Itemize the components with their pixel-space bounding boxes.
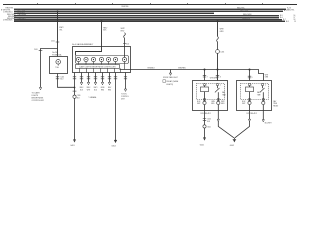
svg-text:TIME: TIME: [257, 95, 261, 97]
svg-text:FUSE 7.5A: FUSE 7.5A: [52, 53, 62, 56]
relay K1 outer box: [193, 81, 228, 111]
svg-text:LIGHTS): LIGHTS): [166, 84, 173, 86]
svg-text:BLK: BLK: [207, 121, 210, 123]
node junction relay bus: [217, 69, 219, 71]
connector circle pin4: [217, 101, 220, 104]
relay K1 switch: [217, 86, 219, 89]
svg-text:G402: G402: [230, 145, 234, 147]
svg-text:C560: C560: [207, 119, 211, 121]
svg-text:B-8: B-8: [286, 21, 289, 23]
svg-text:UNIT: UNIT: [121, 99, 125, 101]
svg-text:CONTROLLER: CONTROLLER: [32, 100, 45, 102]
svg-text:BLK: BLK: [77, 97, 80, 99]
wire bar to box bottom pins: [80, 68, 121, 72]
grid ticks: [38, 3, 263, 4]
wire fuse output: [58, 74, 75, 88]
wire bus L5: [14, 17, 279, 19]
svg-text:GRN: GRN: [211, 101, 214, 103]
svg-text:C416: C416: [60, 76, 64, 78]
svg-text:RED/WHT: RED/WHT: [242, 18, 251, 20]
wire bus L1: [14, 8, 286, 10]
inline connector ticks: [56, 77, 59, 79]
wire gauge to relays: [120, 70, 264, 81]
pin squares top: [249, 84, 251, 86]
svg-text:WHT: WHT: [197, 103, 200, 105]
svg-text:A-17: A-17: [284, 9, 288, 12]
bulb rail rounded box: [76, 56, 129, 64]
bulb B5: [106, 57, 110, 64]
wire bulb stub 4: [102, 73, 104, 83]
relay K2 coil: [246, 87, 254, 92]
svg-text:GRN/RED: GRN/RED: [178, 67, 187, 69]
svg-text:No.4 GAUGE ASSEMBLY: No.4 GAUGE ASSEMBLY: [72, 43, 94, 46]
svg-text:18: 18: [294, 19, 296, 21]
fuse box No.26: [50, 57, 68, 74]
svg-text:RED/: RED/: [80, 87, 84, 89]
svg-text:1: 1: [206, 84, 207, 86]
wire relay2 pin1 drop: [249, 70, 251, 81]
svg-text:G404: G404: [111, 145, 115, 147]
pin squares top: [204, 84, 206, 86]
svg-text:FROM TAILLIGHT: FROM TAILLIGHT: [163, 76, 179, 79]
bulb B6: [113, 57, 117, 64]
svg-text:RED/: RED/: [87, 87, 91, 89]
connector tick: [123, 42, 126, 44]
connector tick C501: [56, 41, 60, 43]
top border frame line: [3, 4, 297, 6]
pin squares bottom: [249, 99, 251, 101]
svg-text:BLU/WHT: BLU/WHT: [265, 122, 272, 124]
svg-text:WHT: WHT: [87, 90, 90, 92]
bulb B7: [122, 57, 126, 69]
node junction L2 fuse drop: [57, 10, 59, 12]
ground G401 left: [73, 139, 76, 141]
relay K1 dashed body: [197, 84, 225, 100]
svg-text:WHT/: WHT/: [221, 101, 225, 103]
ground G404: [114, 139, 117, 141]
svg-text:DRL RELAY 1: DRL RELAY 1: [201, 112, 212, 115]
gauge assembly box U1: [73, 47, 131, 73]
svg-text:TIME: TIME: [222, 95, 226, 97]
wire bus L3: [14, 12, 214, 14]
svg-text:BLU: BLU: [60, 79, 63, 81]
svg-text:C453: C453: [220, 51, 224, 53]
svg-text:GRN/: GRN/: [101, 87, 105, 89]
wire dimming to ground: [115, 73, 117, 141]
fuse F1 symbol: [56, 60, 61, 65]
svg-text:TO DRL: TO DRL: [121, 94, 127, 96]
wire relay 1 feed: [217, 21, 219, 36]
connector circle pin3: [203, 101, 206, 104]
svg-text:RED/WHT: RED/WHT: [18, 18, 27, 20]
relay K1 coil: [201, 87, 209, 92]
svg-text:G401: G401: [200, 145, 204, 147]
svg-text:DASH LIGHTS BRIGHTNESS CONTROL: DASH LIGHTS BRIGHTNESS CONTROLLER: [80, 65, 117, 68]
inline connector ticks: [216, 75, 219, 77]
connector circle pin4: [262, 101, 265, 104]
wire branch to dimmer: [41, 49, 58, 88]
relay K2 outer box: [237, 81, 272, 111]
svg-text:BLU/: BLU/: [108, 87, 112, 89]
wire gauge feed: [76, 21, 102, 55]
wire bulb 7 feed: [124, 38, 126, 57]
arrow TO lighting: [169, 73, 171, 75]
svg-text:DRL RELAY 2: DRL RELAY 2: [247, 112, 258, 115]
svg-text:D RED/BLK: D RED/BLK: [3, 20, 13, 22]
bulb B3: [91, 57, 95, 64]
svg-text:C416: C416: [34, 49, 38, 51]
wire bus L4: [14, 15, 279, 17]
svg-text:RED/GRN: RED/GRN: [18, 14, 27, 16]
wire relay1 pin1 drop: [204, 70, 206, 81]
svg-text:19: 19: [294, 21, 296, 23]
bulb B2: [84, 57, 88, 64]
svg-text:RED/YEL: RED/YEL: [122, 6, 129, 8]
bulb B1: [76, 57, 80, 64]
svg-text:TIME: TIME: [273, 103, 277, 105]
svg-text:RED/GRN: RED/GRN: [243, 14, 252, 16]
svg-text:G551: G551: [207, 126, 211, 128]
node junction L7 feed: [101, 20, 103, 22]
wire K2 pin3 V arm: [235, 111, 250, 138]
connector circle: [73, 95, 76, 98]
svg-text:16: 16: [294, 15, 296, 17]
svg-text:CONTROL: CONTROL: [121, 96, 129, 98]
wire K1 pin3 to ground: [204, 111, 206, 138]
ground G401 right: [203, 137, 206, 139]
svg-text:BLU: BLU: [94, 90, 97, 92]
svg-text:BLK: BLK: [80, 90, 83, 92]
svg-text:GRN: GRN: [265, 77, 268, 79]
arrow to dash lights controller: [39, 87, 41, 89]
svg-text:G401: G401: [70, 145, 74, 147]
node junction L7 relay feed: [217, 20, 219, 22]
connector tick C416: [39, 50, 43, 52]
svg-text:GRN: GRN: [221, 103, 224, 105]
wire bulb stub 3: [95, 73, 97, 83]
bulb B4: [99, 57, 103, 64]
connector squiggle bulb7: [124, 33, 126, 38]
svg-text:C501: C501: [51, 41, 55, 43]
arrow connector: [262, 120, 264, 122]
svg-text:RED/BLK: RED/BLK: [148, 68, 156, 70]
connector circle G551: [203, 125, 206, 128]
svg-text:BLU/: BLU/: [197, 101, 201, 103]
svg-text:YEL: YEL: [59, 30, 62, 32]
wire bulb stub 2: [88, 73, 90, 83]
svg-text:WHT/: WHT/: [94, 87, 98, 89]
wire bulb stub 5: [109, 73, 111, 83]
ground G402: [233, 138, 235, 140]
wire bus L2: [14, 10, 283, 12]
pin squares bottom: [204, 99, 206, 101]
svg-text:C580: C580: [77, 95, 81, 97]
wire K2 pin4 stub: [262, 111, 264, 120]
wire to DRL relay branch: [125, 73, 127, 90]
svg-text:WHT: WHT: [242, 103, 245, 105]
svg-text:WHT/GRN: WHT/GRN: [210, 77, 217, 79]
svg-text:17: 17: [294, 17, 296, 19]
arrow connector: [248, 119, 250, 121]
connector circle pin3: [248, 101, 251, 104]
svg-text:WHT/YEL: WHT/YEL: [240, 10, 248, 12]
wire drop TO lighting: [170, 70, 172, 74]
wire bus L7: [14, 20, 285, 22]
wire K1 pin4 V arm: [218, 111, 234, 138]
wire fuse drop: [57, 11, 59, 56]
wire bulb stub 1: [81, 73, 83, 83]
icon square TO mid: [163, 80, 166, 83]
brightness controller bar: [76, 65, 120, 69]
relay K2 dashed body: [241, 84, 269, 100]
svg-text:1: 1: [251, 84, 252, 86]
svg-text:RED/YEL: RED/YEL: [287, 10, 294, 12]
relay K2 switch: [262, 86, 264, 89]
connector circle C453: [216, 50, 220, 54]
svg-text:WHT: WHT: [265, 74, 268, 76]
svg-text:BLU: BLU: [126, 43, 129, 45]
arrow connector: [217, 119, 219, 121]
svg-text:RELAY (DASH: RELAY (DASH: [166, 80, 179, 83]
connector squiggle: [217, 36, 219, 41]
wire gauge common to ground: [74, 73, 76, 140]
svg-text:BLU/: BLU/: [242, 101, 246, 103]
wire bus L6: [14, 19, 282, 21]
